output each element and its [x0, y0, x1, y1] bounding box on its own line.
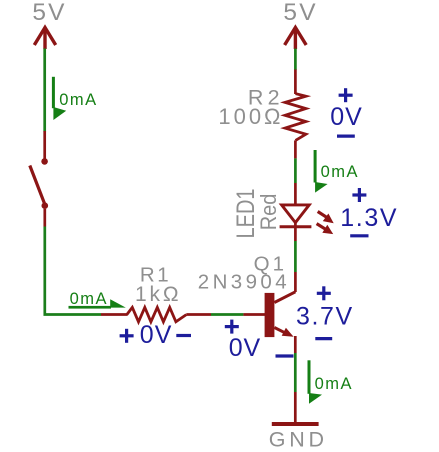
wire R1 right red: [186, 313, 211, 316]
voltmeter annotation + 3.7V - (collector-emitter): [315, 286, 332, 338]
wire right top green: [294, 49, 297, 70]
wire collector green segment: [294, 241, 297, 272]
LED1 cathode bar: [280, 225, 312, 228]
wire LED cathode down red: [294, 227, 297, 241]
svg-text:3.7V: 3.7V: [296, 302, 354, 330]
power supply arrow V2 (right 5V): [285, 28, 307, 50]
current probe annotation 0mA (R2 branch): [314, 150, 359, 193]
wire to collector red: [294, 272, 297, 292]
voltmeter annotation + 0V - (across R1): [120, 329, 191, 343]
transistor Q1 emitter lead: [274, 328, 287, 334]
svg-text:2N3904: 2N3904: [198, 271, 290, 294]
svg-text:5V: 5V: [283, 0, 317, 26]
wire below switch red: [43, 209, 46, 227]
svg-text:1.3V: 1.3V: [340, 204, 398, 232]
svg-text:100Ω: 100Ω: [218, 104, 283, 129]
wire to ground red: [294, 392, 297, 422]
transistor Q1 collector lead: [274, 292, 295, 303]
LED1 triangle (anode): [282, 205, 310, 223]
current probe annotation 0mA (base branch): [69, 290, 126, 309]
LED light emission arrow 2: [317, 224, 334, 235]
switch S1 blade (open): [30, 166, 45, 205]
wire red to R1 left lead: [101, 313, 128, 316]
svg-text:0V: 0V: [229, 334, 261, 362]
svg-text:0mA: 0mA: [70, 290, 108, 308]
switch S1 bottom contact dot: [42, 202, 49, 209]
resistor R1 zigzag: [127, 307, 187, 321]
wire emitter down red: [294, 336, 297, 353]
LED light emission arrow 1: [318, 212, 334, 224]
svg-text:GND: GND: [269, 427, 328, 451]
wire below R2 green segment: [294, 158, 297, 183]
LED1 apex to bar connector: [294, 222, 297, 228]
voltmeter annotation + 0V - (base-emitter): [225, 320, 294, 356]
wire R1 right green segment: [211, 313, 243, 316]
wire into base red: [243, 313, 265, 316]
power supply arrow V1 (left 5V): [34, 28, 55, 50]
current probe annotation 0mA (emitter branch): [308, 360, 354, 404]
svg-text:LED1: LED1: [232, 188, 260, 238]
resistor R2 zigzag: [285, 94, 306, 141]
voltmeter annotation + 0V - (across R2): [337, 88, 355, 136]
svg-text:0V: 0V: [330, 103, 363, 131]
wire left vertical green (supply to probe): [43, 49, 46, 132]
wire green L-corner down then right to R1: [45, 227, 101, 315]
voltmeter annotation + 1.3V - (across LED1): [350, 188, 368, 236]
wire left vertical red (probe to switch): [43, 131, 46, 160]
transistor Q1 base bar: [265, 293, 275, 337]
wire to LED anode red: [294, 183, 297, 205]
svg-text:0V: 0V: [140, 321, 173, 349]
current probe annotation 0mA (left branch): [52, 77, 98, 120]
wire right top red to R2: [294, 70, 297, 95]
svg-text:1kΩ: 1kΩ: [135, 283, 181, 306]
svg-text:0mA: 0mA: [321, 163, 359, 181]
svg-text:5V: 5V: [32, 0, 66, 26]
svg-text:Red: Red: [257, 194, 281, 231]
ground bar: [272, 422, 319, 426]
svg-text:0mA: 0mA: [315, 375, 353, 393]
svg-text:0mA: 0mA: [59, 91, 97, 109]
wire below R2 red: [294, 140, 297, 158]
wire emitter green segment: [294, 353, 297, 392]
switch S1 top contact dot: [41, 158, 48, 165]
transistor Q1 emitter arrowhead: [282, 328, 294, 337]
